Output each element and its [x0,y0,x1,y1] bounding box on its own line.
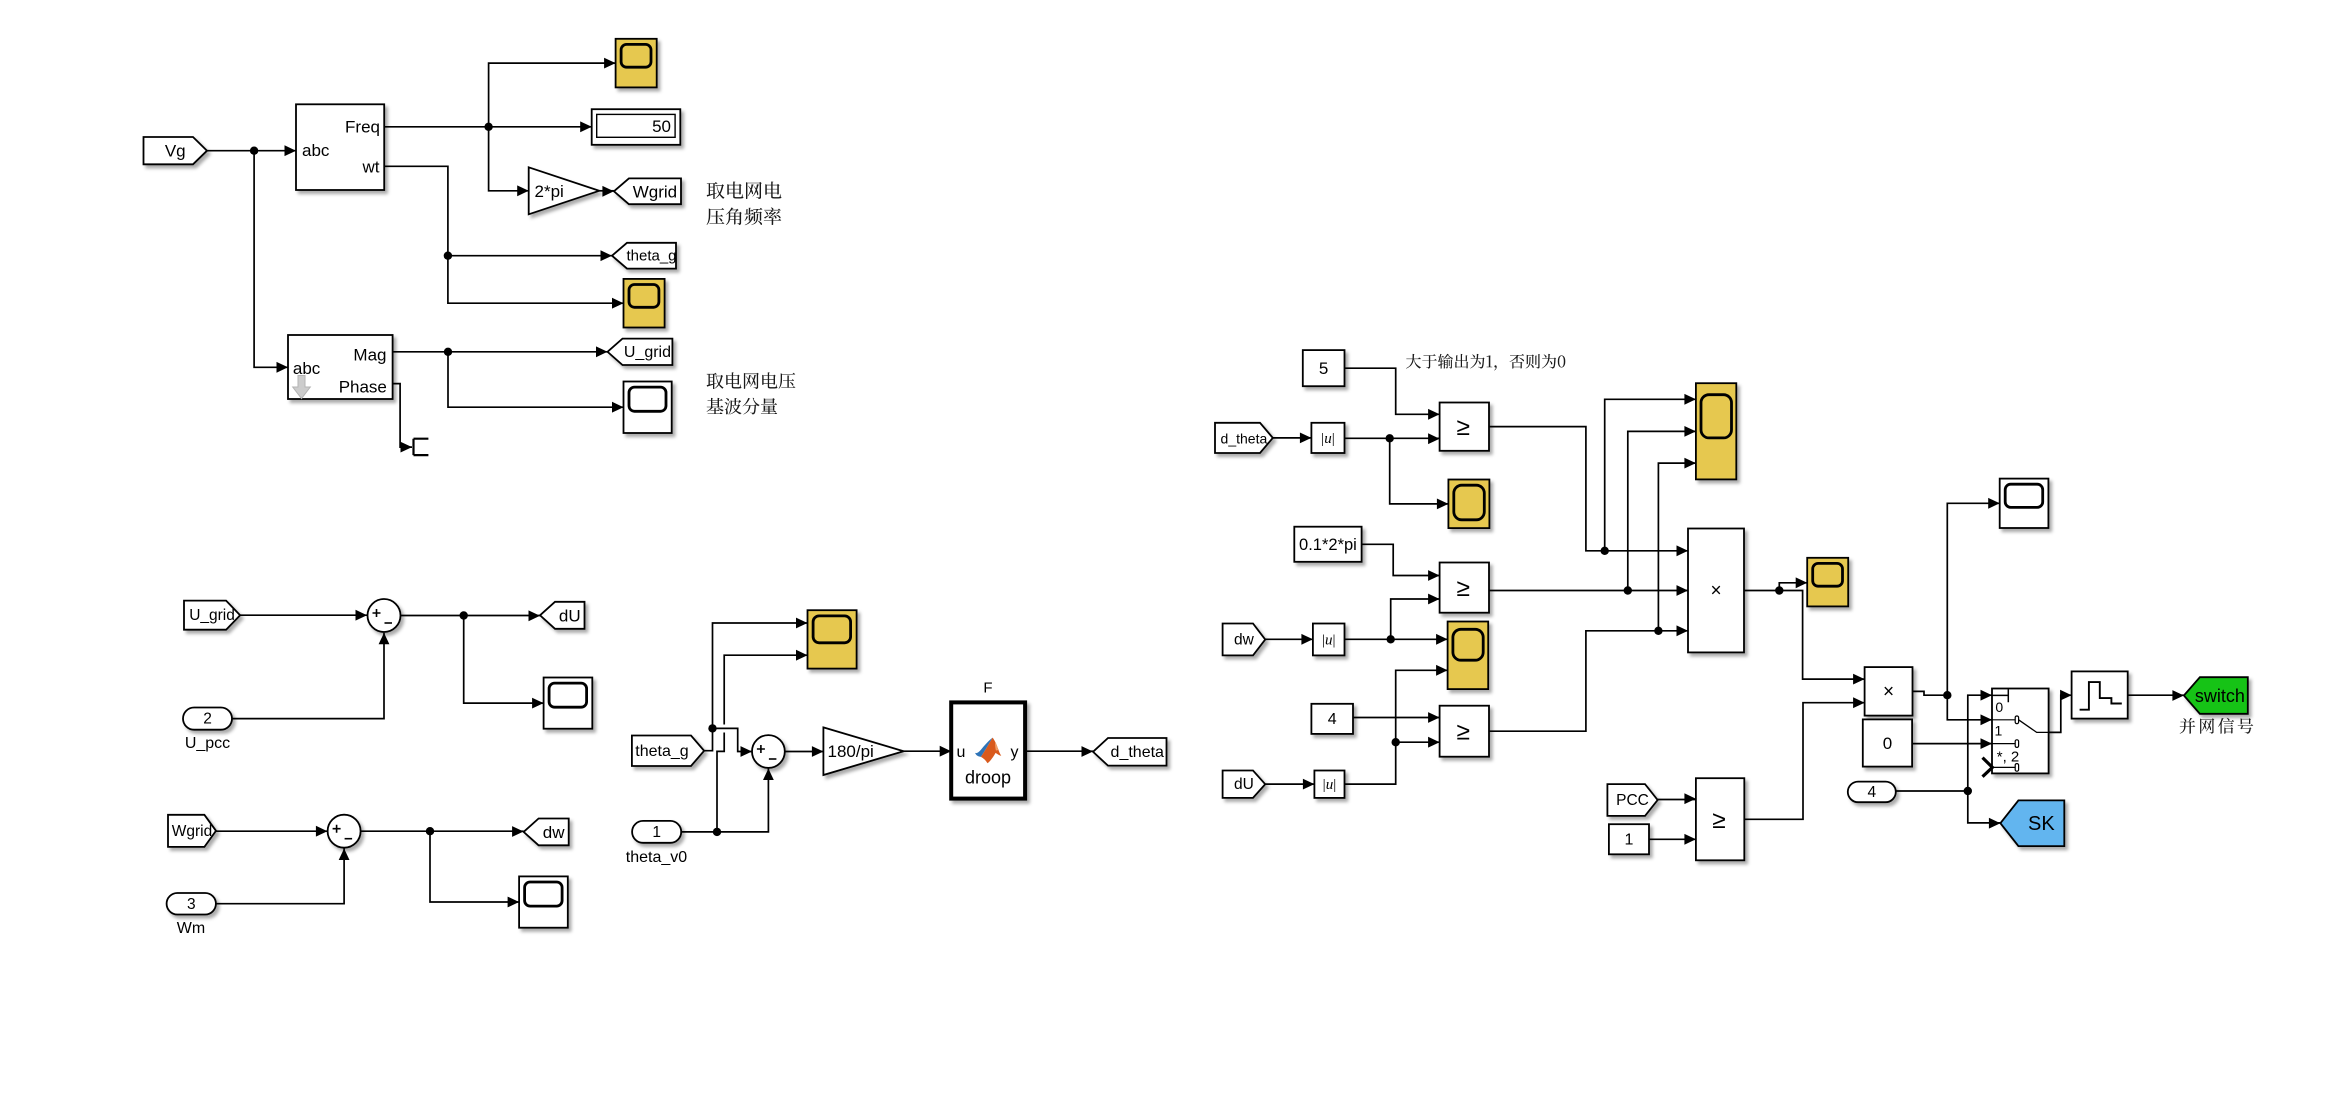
wire comp4 to X2 in2 [1744,697,1864,819]
scope Scope10 [2000,479,2049,528]
scope Scope3 [624,382,672,434]
svg-text:2*pi: 2*pi [535,182,564,201]
svg-text:×: × [1883,681,1894,702]
wire Vg to abc demux blocks [207,145,296,372]
product X1 [1688,529,1744,653]
MATLAB Function droop F [951,680,1025,799]
input tag dU [1223,771,1266,798]
wire d_theta to abs1 [1273,433,1312,444]
wire X2 to switch port2 [1947,695,1992,725]
relational operator GE2 [1440,563,1489,613]
svg-text:*, 2: *, 2 [1997,749,2020,766]
wire gain2 to droop [904,746,952,757]
abs |u| 1 [1311,423,1344,453]
wire Phase to terminator [393,384,412,453]
sum S1 [368,599,401,632]
svg-text:d_theta: d_theta [1111,744,1164,761]
block U1 Freq/wt measurement [296,104,384,190]
output tag theta_g [612,243,677,269]
svg-text:×: × [1710,580,1721,601]
svg-text:dU: dU [1234,776,1254,793]
wire U_pcc to sum1 minus [232,633,389,719]
wire const5 to comp1 [1345,368,1440,420]
svg-text:theta_v0: theta_v0 [626,849,687,866]
wire Wm to sum2 minus [216,849,350,904]
svg-text:u: u [957,744,966,761]
input tag dw [1223,624,1266,656]
input tag PCC [1607,784,1657,816]
svg-text:dw: dw [543,823,565,842]
svg-text:Wgrid: Wgrid [172,823,212,840]
svg-text:droop: droop [965,768,1011,788]
wire abs3 up to scope8 in2 [1345,665,1448,784]
svg-text:|u|: |u| [1322,632,1336,648]
svg-text:SK: SK [2028,813,2055,835]
svg-text:|u|: |u| [1321,431,1335,447]
svg-text:1: 1 [1995,723,2003,739]
annotation take grid voltage fundamental component [707,372,796,414]
wire const1 to comp4 [1649,834,1696,845]
wire to scope9 [1779,577,1807,590]
svg-text:Wgrid: Wgrid [633,182,677,201]
relational operator GE1 [1440,403,1489,451]
wire sum2 to dw tag [361,826,524,837]
output tag U_grid [608,339,673,365]
svg-text:180/pi: 180/pi [828,742,874,761]
svg-text:PCC: PCC [1616,792,1649,809]
svg-text:4: 4 [1328,711,1337,728]
wire inport4 junction [1896,787,1972,795]
svg-text:Freq: Freq [345,118,380,137]
wire pulse to switch tag [2128,690,2184,701]
scope Scope6 [808,610,857,668]
svg-text:4: 4 [1867,784,1876,801]
svg-text:50: 50 [652,117,671,136]
wire theta_g to junction [704,724,717,751]
wire comp3 to product1 in3 [1489,625,1688,731]
svg-text:U_grid: U_grid [624,344,671,361]
input tag d_theta [1215,423,1273,453]
wire Mag to U_grid tag [393,346,608,357]
wire comp2 to product1 in2 [1489,585,1688,596]
input tag Vg [144,137,208,164]
svg-text:|u|: |u| [1323,777,1337,793]
wire X2 to scope10 [1947,498,1999,695]
svg-text:0: 0 [1995,699,2003,715]
svg-text:3: 3 [187,896,196,913]
annotation grid-connection signal [2180,718,2254,734]
input tag theta_g [632,736,704,767]
wire to big scope in1 [1605,394,1696,551]
annotation threshold comment [1406,354,1565,371]
svg-text:d_theta: d_theta [1221,430,1268,446]
wire Mag branch to scope3 [448,352,624,413]
wire theta_v0 to sum3 minus [717,769,774,832]
svg-text:Vg: Vg [165,142,186,161]
wire abs2 branch to comp2 [1391,594,1440,640]
wire U_grid to sum1 [240,610,367,621]
svg-text:dU: dU [559,606,581,625]
wire Wgrid to sum2 [216,826,327,837]
constant 0.1*2*pi [1294,527,1361,562]
wire X1 out junction [1744,586,1784,594]
scope Scope7 [1448,480,1489,529]
wire abs3 branch to comp3 [1396,737,1440,748]
svg-text:theta_g: theta_g [626,248,676,265]
constant 5 [1303,350,1345,386]
sum S3 [752,735,785,768]
svg-text:2: 2 [203,711,212,728]
wire abs2 to scope8 in1 [1345,634,1448,645]
wire dw to abs2 [1265,634,1313,645]
gain 180/pi [823,727,903,775]
wire junction to sum3 [713,728,753,757]
svg-text:y: y [1011,744,1019,761]
discrete pulse block [2072,671,2128,718]
svg-text:≥: ≥ [1712,807,1725,834]
svg-text:0.1*2*pi: 0.1*2*pi [1299,536,1357,554]
output tag Wgrid [614,178,681,204]
svg-text:wt: wt [362,157,380,176]
svg-text:Wm: Wm [177,920,205,937]
relational operator GE4 [1696,778,1744,860]
inport 1 theta_v0 [632,821,681,843]
wire theta_v0 junction [681,828,721,836]
wire sum1 to dU tag [401,610,541,621]
abs |u| 2 [1313,624,1345,656]
scope Scope5 [519,876,568,927]
wire comp1 to product1 in1 [1489,427,1688,557]
wire to big scope in3 [1658,458,1696,631]
wire gain to Wgrid tag [599,186,614,197]
product X2 [1865,667,1913,716]
sum S2 [328,815,361,848]
wire to SK tag [1968,791,2001,829]
svg-text:U_grid: U_grid [189,607,235,624]
wire theta_v0 to scope6 in2 [717,650,808,832]
wire Freq branch to gain [489,127,529,196]
scope Scope2 [624,279,665,328]
wire dw branch to scope5 [430,831,519,907]
wire junction to scope6 in1 [713,618,808,729]
inport 4 [1848,782,1896,803]
input tag Wgrid [168,815,216,847]
wire wt to theta_g and scope2 [384,166,623,308]
output tag switch [2184,677,2248,714]
wire abs1 to comp1 [1345,433,1440,444]
annotation take grid voltage angular frequency [707,182,782,226]
label Wm [177,920,205,937]
svg-text:≥: ≥ [1457,575,1470,602]
constant 4 [1311,704,1353,734]
relational operator GE3 [1440,706,1489,757]
wire droop to d_theta tag [1025,746,1093,757]
multiport switch [1983,689,2049,777]
wire to big scope in2 [1628,426,1696,591]
wire Freq to display [384,121,592,132]
svg-text:5: 5 [1319,359,1328,378]
scope BigScope [1696,383,1736,479]
svg-text:switch: switch [2195,686,2245,706]
wire dU to abs3 [1265,779,1314,790]
wire X1 to X2 in1 [1779,591,1864,685]
inport 2 U_pcc [183,708,232,730]
inport 3 Wm [167,893,216,915]
scope Scope1 [616,39,657,88]
constant 0 [1863,719,1912,766]
svg-text:abc: abc [302,141,330,160]
block U2 Mag/Phase measurement [288,335,393,399]
scope Scope9 [1807,558,1848,607]
svg-text:Mag: Mag [353,346,386,365]
wire const0 to switch port3 [1912,738,1992,749]
scope Scope8 [1448,622,1489,690]
svg-text:Phase: Phase [339,377,387,396]
output tag dw [524,819,569,846]
wire sum3 to gain2 [785,746,824,757]
svg-text:≥: ≥ [1457,719,1470,746]
wire PCC to comp4 [1658,793,1696,804]
wire to switch control port1 [1968,690,1992,791]
svg-text:theta_g: theta_g [635,743,688,760]
output tag SK [2000,800,2064,846]
svg-text:≥: ≥ [1457,414,1470,441]
wire const4 to comp3 [1353,712,1440,723]
constant 1 [1609,824,1649,854]
output tag d_theta [1093,738,1167,766]
terminator [414,439,429,455]
label theta_v0 [626,849,687,866]
wire const to comp2 [1362,544,1440,581]
svg-text:abc: abc [293,359,321,378]
scope Scope4 [544,678,593,729]
svg-text:dw: dw [1234,631,1255,648]
wire X2 out junction [1913,691,1952,699]
input tag U_grid [184,601,240,630]
wire switch to pulse block [2049,690,2072,733]
svg-text:F: F [983,680,992,697]
output tag dU [540,602,585,629]
svg-text:U_pcc: U_pcc [185,735,230,752]
display block 50 [592,109,681,145]
svg-text:1: 1 [1624,831,1633,848]
abs |u| 3 [1314,771,1344,798]
wire dU branch to scope4 [464,616,544,709]
svg-text:0: 0 [1883,734,1892,753]
wire abs1 branch to scope7 [1390,438,1449,509]
gain 2*pi [529,167,600,214]
label U_pcc [185,735,230,752]
wire Freq branch to scope1 [489,58,616,127]
svg-text:1: 1 [652,824,661,841]
